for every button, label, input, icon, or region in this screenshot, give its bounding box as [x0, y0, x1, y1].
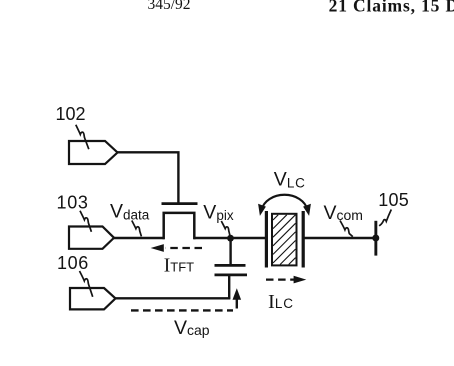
leader line 106 — [80, 271, 93, 297]
wire 102 to TFT gate — [117, 152, 179, 202]
ILC current arrow (dashed, pointing right) — [266, 276, 306, 284]
svg-text:103: 103 — [57, 192, 89, 212]
svg-text:Vdata: Vdata — [110, 201, 150, 223]
wire Vpix node down to capacitor — [229, 238, 231, 266]
LC cell left plate — [265, 211, 268, 268]
leader line 103 — [80, 211, 91, 232]
svg-text:102: 102 — [56, 104, 86, 124]
wire Vdata to TFT source — [113, 237, 165, 239]
connector 106 — [70, 288, 116, 309]
Vcap measurement arrow (dashed with up arrowhead) — [131, 288, 241, 310]
svg-text:345/92: 345/92 — [148, 0, 191, 13]
TFT gate bar — [162, 202, 198, 205]
svg-text:ILC: ILC — [268, 291, 294, 313]
leader line Vdata — [132, 221, 142, 237]
leader line 102 — [76, 125, 89, 149]
LC cell right plate — [302, 211, 305, 268]
VLC arc arrow (double headed) — [258, 195, 311, 216]
node 105 terminal bar — [374, 221, 377, 256]
ITFT current arrow (dashed, pointing left) — [151, 244, 202, 252]
node Vpix — [227, 235, 234, 242]
wire capacitor down to storage bus — [228, 275, 230, 299]
svg-text:Vcap: Vcap — [174, 317, 210, 339]
svg-text:Vpix: Vpix — [203, 202, 234, 224]
capacitor Cst bottom plate — [215, 274, 248, 277]
leader line Vcom — [340, 221, 353, 237]
capacitor Cst top plate — [215, 264, 246, 267]
wire Vpix node to LC left plate — [230, 237, 266, 239]
connector 103 — [69, 227, 114, 249]
TFT channel — [164, 213, 195, 239]
node 105 dot — [372, 235, 379, 242]
svg-text:ITFT: ITFT — [164, 255, 194, 276]
wire TFT drain to Vpix node — [194, 237, 232, 239]
LC cell hatched body — [272, 214, 297, 266]
wire LC right plate to node 105 — [303, 237, 376, 239]
svg-text:105: 105 — [378, 190, 409, 210]
connector 102 — [69, 141, 118, 164]
svg-text:VLC: VLC — [274, 168, 306, 190]
leader line Vpix — [221, 221, 230, 235]
svg-text:106: 106 — [57, 253, 89, 273]
svg-text:Vcom: Vcom — [324, 202, 363, 224]
svg-text:21 Claims, 15 Drawing Sheets: 21 Claims, 15 Drawing Sheets — [329, 0, 454, 15]
leader line 105 — [379, 210, 391, 226]
wire 106 to capacitor (storage bus) — [115, 297, 231, 299]
